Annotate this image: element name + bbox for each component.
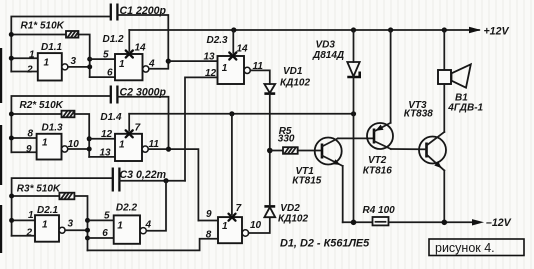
resistor R3 <box>59 193 74 200</box>
svg-text:3: 3 <box>71 56 77 67</box>
VT3 emitter <box>427 155 445 171</box>
bubble D1.4 output <box>142 146 148 152</box>
capacitor C1 <box>110 4 112 21</box>
resistor R2 <box>62 111 75 118</box>
resistor R4 <box>373 217 389 225</box>
node line A end VD3 <box>351 111 356 116</box>
gate D2 pins 9-8-10 <box>218 217 242 243</box>
pin14 mark D1.2 <box>126 51 133 58</box>
wire gate2 pin7 up <box>231 114 233 214</box>
node out10 <box>87 147 92 152</box>
node rail speaker <box>442 27 447 32</box>
wire speaker top <box>443 30 445 70</box>
pin7 mark D1.4 <box>126 130 133 137</box>
bubble D1.2 output <box>143 66 149 72</box>
wire VD3 top <box>353 30 355 62</box>
node pin1 tap <box>9 218 14 223</box>
bubble gate2 output <box>242 230 248 236</box>
wire R3 right to vertical <box>74 196 87 250</box>
VT1 emitter <box>322 156 343 167</box>
svg-text:КТ816: КТ816 <box>363 165 393 176</box>
svg-text:14: 14 <box>237 43 249 54</box>
wire VD3 anode down to rail <box>353 77 355 222</box>
bubble D1.1 output <box>62 64 68 70</box>
wire D1.2 pin6 <box>90 76 115 78</box>
wire D1.4 pin13 <box>89 156 115 158</box>
node pin5 tap <box>87 57 92 62</box>
svg-text:КД102: КД102 <box>280 77 310 88</box>
svg-text:6: 6 <box>107 67 113 78</box>
transistor VT1 <box>315 138 342 165</box>
svg-text:R4 100: R4 100 <box>363 205 396 216</box>
svg-text:2: 2 <box>26 228 33 239</box>
wire D2.3 pin14 up <box>232 30 234 53</box>
wire VT1 emitter down <box>342 166 344 222</box>
gate D2.3 <box>218 56 245 84</box>
wire rail left segment <box>343 221 373 223</box>
svg-text:9: 9 <box>26 144 32 155</box>
transistor VT3 <box>419 137 446 164</box>
wire D1.3 pin8 input <box>11 137 36 139</box>
wire C2 right branch <box>117 97 168 149</box>
node rail D2.3 pin14 <box>231 27 236 32</box>
node R2 left <box>9 112 14 117</box>
svg-text:2: 2 <box>26 64 33 75</box>
svg-text:8: 8 <box>28 128 34 139</box>
svg-text:12: 12 <box>101 129 113 140</box>
wire VT2 collector to VT3 base <box>391 148 419 150</box>
svg-text:1: 1 <box>119 59 125 70</box>
node R3 left <box>9 194 14 199</box>
arrow +12V <box>469 27 481 33</box>
gate D1.2 <box>115 54 143 80</box>
wire D2.2 pin6 <box>88 237 114 239</box>
wire D2.3 out pin11 <box>250 70 269 84</box>
svg-text:5: 5 <box>104 210 110 221</box>
VT3 base wire <box>419 148 427 150</box>
svg-text:C3 0,22m: C3 0,22m <box>120 169 167 181</box>
gate D1.3 <box>37 134 62 160</box>
node pin5 tap <box>85 218 90 223</box>
wire R2 right to vertical <box>75 114 90 157</box>
svg-text:VD2: VD2 <box>280 203 300 214</box>
wire D1.2 pin5 <box>90 58 115 60</box>
svg-text:6: 6 <box>102 228 108 239</box>
wire D1.2 pin14 up <box>128 30 130 51</box>
wire gate2 pin9 <box>198 220 218 222</box>
svg-text:R2* 510K: R2* 510K <box>20 100 64 111</box>
svg-text:D1.1: D1.1 <box>41 42 63 53</box>
node C3 / out4 <box>163 178 168 183</box>
svg-text:D2.3: D2.3 <box>207 35 229 46</box>
pin7 mark <box>229 214 236 221</box>
svg-text:D2.1: D2.1 <box>37 205 59 216</box>
svg-text:D1.4: D1.4 <box>100 112 122 123</box>
svg-text:D1.2: D1.2 <box>103 34 125 45</box>
svg-text:7: 7 <box>135 122 141 133</box>
svg-text:10: 10 <box>250 220 262 231</box>
svg-text:13: 13 <box>204 52 216 63</box>
svg-text:3: 3 <box>68 218 74 229</box>
svg-text:1: 1 <box>42 138 48 149</box>
svg-text:Д814Д: Д814Д <box>312 50 344 61</box>
bubble D2.3 output <box>244 67 250 73</box>
VT2 emitter (top, PNP arrow into base) <box>374 123 391 132</box>
diode VD2 <box>264 205 275 208</box>
page scan edge bar bottom <box>0 205 2 253</box>
wire R5 left <box>270 150 283 152</box>
wire to D2.3 pin13 <box>168 60 217 62</box>
wire VT1 collector to VT2 base <box>338 137 373 139</box>
svg-text:D2.2: D2.2 <box>116 203 138 214</box>
wire R3 left <box>12 195 60 197</box>
bubble D2.1 output <box>59 227 65 233</box>
svg-text:5: 5 <box>103 49 109 60</box>
node line A gate2 pin7 <box>229 111 234 116</box>
diode VD1 <box>264 84 275 93</box>
wire R1 right to vertical <box>78 35 89 78</box>
node pin6 tap <box>85 236 90 241</box>
svg-text:4ГДВ-1: 4ГДВ-1 <box>447 102 483 113</box>
VT2 collector <box>374 141 391 149</box>
wire D2.1 out pin3 <box>65 229 87 231</box>
wire D2.3 pin12 <box>185 77 218 180</box>
svg-text:1: 1 <box>28 210 34 221</box>
node pin12 tap <box>87 136 92 141</box>
svg-text:1: 1 <box>42 219 48 230</box>
svg-text:4: 4 <box>145 220 152 231</box>
resistor R5 <box>283 147 298 154</box>
wire speaker bottom to VT3 collector <box>443 84 445 132</box>
node out3 <box>85 228 90 233</box>
gate D2.1 <box>35 215 59 242</box>
svg-text:VD1: VD1 <box>283 66 303 77</box>
wire R5 right to VT1 base <box>298 150 321 152</box>
bubble D2.2 output <box>140 228 146 234</box>
wire block1 top <box>11 17 110 72</box>
wire block3 top <box>12 178 113 236</box>
wire R2 left <box>11 113 61 115</box>
speaker B1 <box>438 70 451 84</box>
gate D2.2 <box>114 215 140 243</box>
wire D1.3 pin9 input <box>11 151 36 153</box>
page scan edge bar middle <box>0 125 2 185</box>
wire gate2 out pin10 <box>249 218 270 233</box>
wire rail right segment <box>389 221 478 223</box>
node 11/C2 junction <box>166 147 171 152</box>
wire VD2 cathode up <box>269 151 271 207</box>
svg-text:+12V: +12V <box>484 25 510 37</box>
svg-text:–12V: –12V <box>486 217 512 229</box>
page scan edge bar top <box>0 48 2 103</box>
svg-text:1: 1 <box>222 221 228 232</box>
svg-text:рисунок 4.: рисунок 4. <box>435 241 495 255</box>
wire C1 right to node4 <box>117 15 168 61</box>
svg-text:D1.3: D1.3 <box>42 123 64 134</box>
svg-text:1: 1 <box>44 58 50 69</box>
node rail VT3 emitter <box>442 220 448 226</box>
svg-text:R3* 510K: R3* 510K <box>17 184 61 195</box>
svg-text:1: 1 <box>117 220 123 231</box>
node rail VT2 emitter <box>388 27 393 32</box>
wire D1.4 pin7 up <box>128 114 130 131</box>
wire D1.4 out pin11 <box>148 149 198 220</box>
figure caption box <box>429 239 524 256</box>
arrow -12V <box>472 219 484 225</box>
wire D1.1 pin2 input <box>11 71 38 73</box>
node pin1 tap <box>9 56 14 61</box>
node rail vss <box>351 220 357 226</box>
svg-text:1: 1 <box>119 140 125 151</box>
wire C3 right branch <box>119 180 185 182</box>
wire D1.1 pin1 input <box>11 57 38 59</box>
svg-text:1: 1 <box>29 49 35 60</box>
wire D1.4 pin12 <box>89 138 115 140</box>
node R1 left <box>9 32 14 37</box>
node 4/C1 junction <box>166 59 171 64</box>
svg-text:12: 12 <box>205 68 217 79</box>
wire VD1 cathode down <box>269 94 271 151</box>
wire gate2 pin8 <box>88 239 219 251</box>
transistor VT2 <box>367 123 393 149</box>
VT3 collector <box>427 132 445 146</box>
VT1 collector <box>322 138 338 146</box>
wire vss line A <box>129 113 353 115</box>
svg-text:4: 4 <box>148 59 155 70</box>
svg-text:КТ815: КТ815 <box>292 176 322 187</box>
gate D1.4 <box>115 134 142 161</box>
capacitor C3 <box>112 168 114 192</box>
wire D1.1 out pin3 <box>68 66 90 68</box>
wire VT3 emitter down to rail <box>443 171 445 223</box>
resistor R1 <box>66 31 78 38</box>
node rail VD3 <box>351 27 356 32</box>
svg-text:330: 330 <box>278 134 295 145</box>
svg-text:КД102: КД102 <box>278 213 308 224</box>
wire VT2 emitter up to rail <box>390 30 392 123</box>
wire D2.2 pin5 <box>88 219 114 221</box>
svg-text:VT2: VT2 <box>368 155 387 166</box>
svg-text:1: 1 <box>222 63 228 74</box>
bubble D1.3 output <box>62 146 68 152</box>
svg-text:R1* 510K: R1* 510K <box>21 21 65 32</box>
svg-text:КТ838: КТ838 <box>404 108 434 119</box>
svg-text:13: 13 <box>100 147 112 158</box>
wire D1.2 out pin4 <box>149 61 168 69</box>
wire D2.2 out pin4 up to C3 <box>146 181 166 231</box>
wire +12V rail <box>129 29 479 31</box>
wire R1 left <box>11 34 66 36</box>
node out3 <box>87 64 92 69</box>
wire D1.3 out pin10 <box>68 148 89 150</box>
svg-text:8: 8 <box>206 230 212 241</box>
node R5 tap <box>267 148 273 154</box>
capacitor C2 <box>110 86 112 104</box>
node pin8 tap <box>9 136 14 141</box>
wire D2.1 pin2 input <box>12 235 35 237</box>
zener VD3 <box>347 62 359 76</box>
svg-text:D1, D2 - К561ЛЕ5: D1, D2 - К561ЛЕ5 <box>280 238 370 250</box>
pin14 mark D2.3 <box>229 53 236 60</box>
svg-text:7: 7 <box>236 203 242 214</box>
wire D2.1 pin1 input <box>12 219 35 221</box>
gate D1.1 <box>38 53 62 80</box>
wire block2 top <box>11 96 110 152</box>
svg-text:9: 9 <box>206 209 212 220</box>
svg-text:14: 14 <box>135 42 147 53</box>
